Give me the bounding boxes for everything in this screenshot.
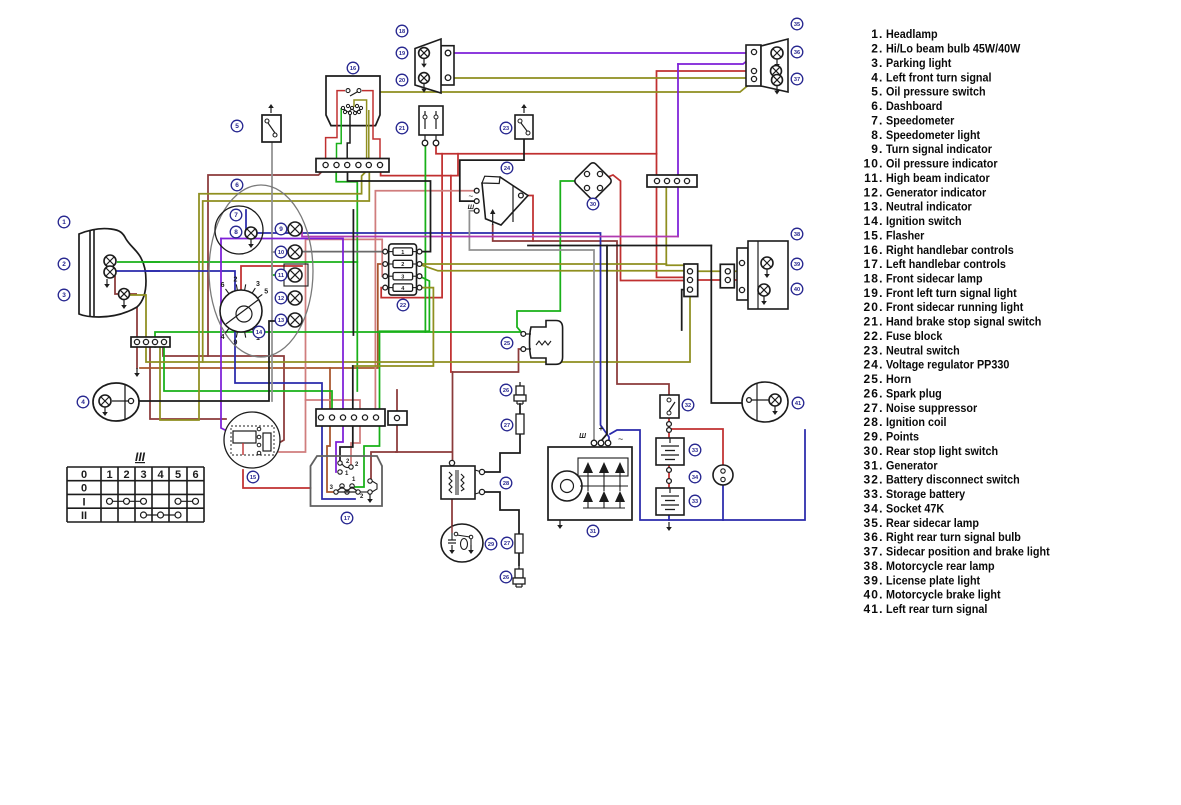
svg-text:Ignition coil: Ignition coil xyxy=(886,417,947,430)
svg-text:Dashboard: Dashboard xyxy=(886,101,942,114)
svg-text:Right handlebar controls: Right handlebar controls xyxy=(886,244,1014,257)
svg-text:~: ~ xyxy=(618,434,623,444)
svg-text:6: 6 xyxy=(235,182,239,189)
svg-text:30: 30 xyxy=(590,202,596,208)
svg-text:Ш: Ш xyxy=(468,204,475,211)
svg-text:33: 33 xyxy=(692,499,698,505)
svg-text:20.: 20. xyxy=(864,300,884,314)
svg-text:13.: 13. xyxy=(864,200,884,214)
svg-text:25: 25 xyxy=(504,341,510,347)
svg-text:3.: 3. xyxy=(871,56,883,70)
svg-text:19: 19 xyxy=(399,51,405,57)
svg-text:13: 13 xyxy=(278,318,284,324)
svg-text:Front sidecar lamp: Front sidecar lamp xyxy=(886,273,983,286)
svg-text:14.: 14. xyxy=(864,214,884,228)
svg-text:32: 32 xyxy=(685,403,691,409)
svg-text:Oil pressure switch: Oil pressure switch xyxy=(886,86,986,99)
svg-text:18: 18 xyxy=(399,29,405,35)
svg-text:34: 34 xyxy=(692,475,699,481)
svg-text:21: 21 xyxy=(399,126,405,132)
svg-text:1: 1 xyxy=(62,219,66,226)
svg-text:9.: 9. xyxy=(871,142,883,156)
svg-text:18.: 18. xyxy=(864,272,884,286)
svg-text:Storage battery: Storage battery xyxy=(886,489,966,502)
svg-text:Points: Points xyxy=(886,431,919,444)
svg-text:Front left turn signal light: Front left turn signal light xyxy=(886,287,1017,300)
svg-text:Sidecar position and brake lig: Sidecar position and brake light xyxy=(886,546,1050,559)
svg-text:High beam indicator: High beam indicator xyxy=(886,172,990,185)
svg-text:29.: 29. xyxy=(864,430,884,444)
svg-text:31: 31 xyxy=(590,529,596,535)
svg-text:Ш: Ш xyxy=(579,433,586,440)
svg-text:License plate light: License plate light xyxy=(886,575,980,588)
svg-text:39: 39 xyxy=(794,262,800,268)
svg-text:36: 36 xyxy=(794,50,800,56)
svg-text:Socket 47K: Socket 47K xyxy=(886,503,945,516)
svg-text:Hi/Lo beam bulb 45W/40W: Hi/Lo beam bulb 45W/40W xyxy=(886,43,1021,56)
svg-text:Noise suppressor: Noise suppressor xyxy=(886,402,978,415)
svg-text:40: 40 xyxy=(794,287,800,293)
svg-text:Fuse block: Fuse block xyxy=(886,331,943,344)
svg-text:7: 7 xyxy=(234,212,238,219)
svg-text:Turn signal indicator: Turn signal indicator xyxy=(886,144,992,157)
svg-text:40.: 40. xyxy=(864,588,884,602)
svg-text:5.: 5. xyxy=(871,85,883,99)
svg-text:35: 35 xyxy=(794,22,800,28)
svg-text:2: 2 xyxy=(233,277,237,284)
svg-text:3: 3 xyxy=(140,469,146,481)
svg-text:Neutral switch: Neutral switch xyxy=(886,345,960,358)
svg-text:12.: 12. xyxy=(864,185,884,199)
svg-text:Horn: Horn xyxy=(886,374,911,387)
svg-text:Battery disconnect switch: Battery disconnect switch xyxy=(886,474,1020,487)
svg-text:11.: 11. xyxy=(864,171,883,185)
svg-text:26: 26 xyxy=(503,388,509,394)
svg-text:30.: 30. xyxy=(864,444,884,458)
svg-text:Speedometer light: Speedometer light xyxy=(886,129,980,142)
svg-text:Parking light: Parking light xyxy=(886,57,952,70)
svg-text:8: 8 xyxy=(234,229,238,236)
svg-text:4: 4 xyxy=(157,469,164,481)
svg-text:27: 27 xyxy=(504,541,510,547)
svg-text:8.: 8. xyxy=(871,128,883,142)
svg-text:Hand brake stop signal switch: Hand brake stop signal switch xyxy=(886,316,1041,329)
svg-text:Voltage regulator PP330: Voltage regulator PP330 xyxy=(886,359,1009,372)
svg-text:+: + xyxy=(599,424,604,433)
svg-text:II: II xyxy=(81,510,87,522)
svg-text:9: 9 xyxy=(279,226,283,233)
svg-text:2: 2 xyxy=(123,469,129,481)
svg-text:41: 41 xyxy=(795,401,801,407)
svg-text:Right rear turn signal bulb: Right rear turn signal bulb xyxy=(886,532,1021,545)
svg-text:28.: 28. xyxy=(864,415,884,429)
svg-text:3: 3 xyxy=(62,292,66,299)
svg-text:31.: 31. xyxy=(864,458,884,472)
svg-text:39.: 39. xyxy=(864,573,884,587)
svg-text:35.: 35. xyxy=(864,516,884,530)
svg-text:Ignition switch: Ignition switch xyxy=(886,216,962,229)
svg-text:38.: 38. xyxy=(864,559,884,573)
svg-text:21.: 21. xyxy=(864,315,884,329)
svg-text:27: 27 xyxy=(504,423,510,429)
svg-text:41.: 41. xyxy=(864,602,884,616)
svg-text:36.: 36. xyxy=(864,530,884,544)
svg-text:5: 5 xyxy=(175,469,181,481)
svg-text:37: 37 xyxy=(794,77,800,83)
svg-text:Flasher: Flasher xyxy=(886,230,925,243)
svg-text:Neutral indicator: Neutral indicator xyxy=(886,201,972,214)
svg-text:6: 6 xyxy=(221,282,225,289)
svg-text:0: 0 xyxy=(81,483,87,495)
svg-text:22.: 22. xyxy=(864,329,884,343)
svg-text:Generator: Generator xyxy=(886,460,938,473)
svg-text:28: 28 xyxy=(503,481,509,487)
svg-text:11: 11 xyxy=(278,273,284,279)
svg-text:5: 5 xyxy=(235,123,239,130)
svg-text:29: 29 xyxy=(488,542,494,548)
svg-text:34.: 34. xyxy=(864,501,884,515)
svg-text:16: 16 xyxy=(350,66,356,72)
svg-text:4: 4 xyxy=(221,334,225,341)
svg-text:22: 22 xyxy=(400,303,406,309)
svg-text:Headlamp: Headlamp xyxy=(886,29,938,42)
svg-text:33.: 33. xyxy=(864,487,884,501)
svg-text:Front sidecar running light: Front sidecar running light xyxy=(886,302,1023,315)
svg-text:17: 17 xyxy=(344,516,350,522)
svg-text:1.: 1. xyxy=(871,27,883,41)
svg-text:6.: 6. xyxy=(871,99,883,113)
svg-text:25.: 25. xyxy=(864,372,884,386)
svg-text:3: 3 xyxy=(401,274,404,280)
svg-text:24: 24 xyxy=(504,166,511,172)
svg-text:I: I xyxy=(82,496,85,508)
svg-text:2: 2 xyxy=(62,261,66,268)
svg-text:Left rear turn signal: Left rear turn signal xyxy=(886,604,987,617)
svg-text:Rear stop light switch: Rear stop light switch xyxy=(886,445,998,458)
svg-text:23: 23 xyxy=(503,126,509,132)
svg-text:~: ~ xyxy=(468,192,473,201)
svg-text:Motorcycle rear lamp: Motorcycle rear lamp xyxy=(886,560,995,573)
svg-text:0: 0 xyxy=(81,469,87,481)
svg-text:Speedometer: Speedometer xyxy=(886,115,955,128)
svg-text:14: 14 xyxy=(256,330,263,336)
svg-text:Left front turn signal: Left front turn signal xyxy=(886,72,992,85)
svg-text:27.: 27. xyxy=(864,401,884,415)
svg-text:Rear sidecar lamp: Rear sidecar lamp xyxy=(886,517,979,530)
svg-text:9: 9 xyxy=(233,340,237,347)
svg-text:26.: 26. xyxy=(864,386,884,400)
svg-text:33: 33 xyxy=(692,448,698,454)
svg-text:10: 10 xyxy=(278,250,284,256)
svg-text:1: 1 xyxy=(401,250,404,256)
svg-text:Oil pressure indicator: Oil pressure indicator xyxy=(886,158,998,171)
svg-text:7.: 7. xyxy=(871,113,883,127)
svg-text:3: 3 xyxy=(256,281,260,288)
svg-text:12: 12 xyxy=(278,296,284,302)
svg-text:Left handlebar controls: Left handlebar controls xyxy=(886,259,1006,272)
svg-text:16.: 16. xyxy=(864,243,884,257)
svg-text:37.: 37. xyxy=(864,545,884,559)
svg-text:26: 26 xyxy=(503,575,509,581)
svg-text:23.: 23. xyxy=(864,343,884,357)
svg-text:19.: 19. xyxy=(864,286,884,300)
svg-text:15.: 15. xyxy=(864,228,884,242)
svg-text:32.: 32. xyxy=(864,473,884,487)
svg-text:2: 2 xyxy=(401,262,404,268)
svg-text:1: 1 xyxy=(106,469,112,481)
svg-text:4.: 4. xyxy=(871,70,883,84)
svg-text:15: 15 xyxy=(250,475,256,481)
svg-text:24.: 24. xyxy=(864,358,884,372)
svg-text:4: 4 xyxy=(81,399,85,406)
svg-text:20: 20 xyxy=(399,78,405,84)
svg-text:6: 6 xyxy=(192,469,198,481)
svg-text:2.: 2. xyxy=(871,42,883,56)
svg-text:III: III xyxy=(135,450,146,464)
svg-text:17.: 17. xyxy=(864,257,884,271)
svg-text:Spark plug: Spark plug xyxy=(886,388,942,401)
svg-text:38: 38 xyxy=(794,232,800,238)
svg-text:Motorcycle brake light: Motorcycle brake light xyxy=(886,589,1001,602)
svg-text:5: 5 xyxy=(264,288,268,295)
svg-text:Generator indicator: Generator indicator xyxy=(886,187,987,200)
svg-text:10.: 10. xyxy=(864,157,884,171)
